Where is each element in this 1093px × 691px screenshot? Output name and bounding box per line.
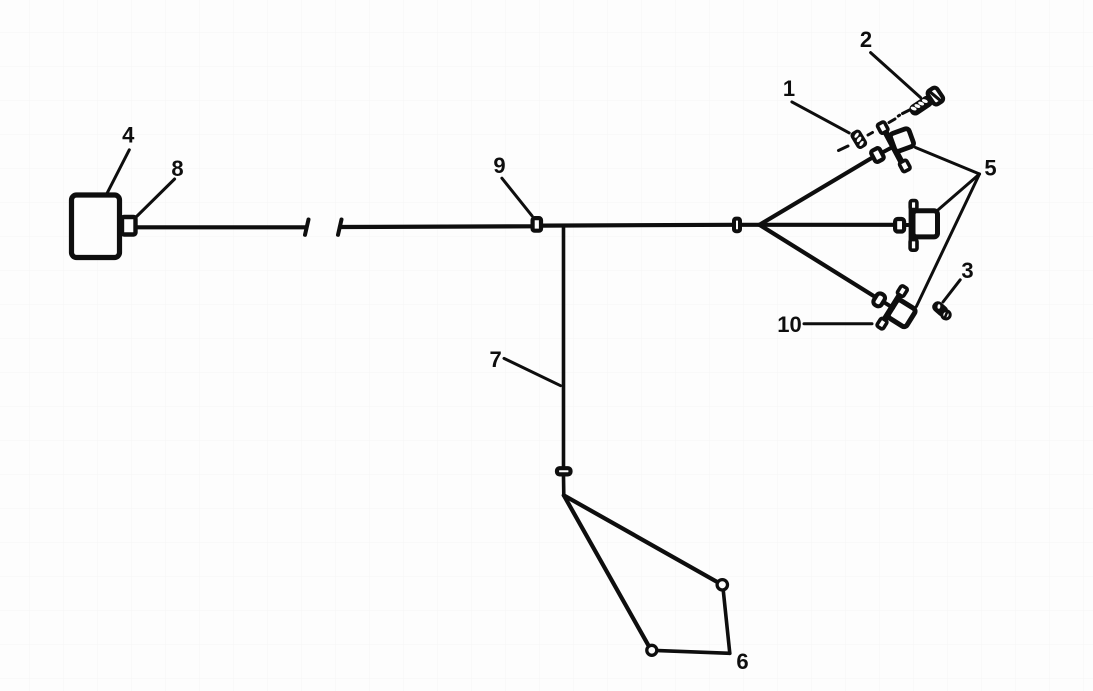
leader for label 8 (137, 179, 175, 217)
wire: branch to bottom connector nut (760, 225, 875, 297)
coupling nut (870, 147, 884, 162)
screw 2 (906, 86, 944, 119)
leader for label 10 (804, 322, 872, 325)
bottom mounting tab (910, 240, 917, 251)
eyelet terminal A (item 6) (717, 580, 727, 590)
junction sleeve on wire (734, 219, 740, 232)
top mounting tab (910, 201, 917, 210)
top mounting tab (897, 285, 908, 297)
svg-text:3: 3 (961, 258, 973, 283)
svg-text:1: 1 (783, 76, 795, 101)
coupling nut (895, 219, 904, 232)
coupling nut (872, 292, 887, 308)
leader for label 3 (943, 280, 960, 302)
nut stub (882, 146, 894, 153)
leaders for label 5 (916, 148, 980, 175)
svg-text:7: 7 (489, 347, 501, 372)
box 4: control module (72, 195, 120, 258)
svg-text:8: 8 (171, 156, 183, 181)
leader for label 4 (107, 150, 129, 193)
screw head (926, 86, 944, 105)
screw 3 (931, 300, 953, 321)
wire break tick left (305, 220, 309, 235)
leader for label 9 (502, 178, 532, 216)
wire: eyelet A down to corner (723, 591, 730, 654)
wire: loop left side to eyelet B (564, 495, 649, 645)
wire: branch to top connector nut (760, 156, 876, 225)
svg-text:10: 10 (777, 312, 801, 337)
wire: harness lead from box 4 to break (137, 225, 306, 229)
leader for label 7 (504, 358, 561, 385)
svg-text:5: 5 (984, 155, 996, 180)
wire: branch to middle connector nut (760, 223, 894, 227)
wire: bottom run corner to eyelet B (658, 651, 730, 654)
svg-text:6: 6 (736, 649, 748, 674)
bottom mounting tab (876, 318, 887, 330)
item 1: knurled coupling nut (851, 130, 867, 149)
wire: main harness run to connector 9 (340, 224, 532, 229)
connector sleeve 9 on wire (533, 218, 541, 231)
sleeve on vertical drop lead (557, 468, 571, 474)
middle connector (item 5 group) (895, 201, 937, 251)
flange bar (883, 293, 901, 322)
wire: stub from junction sleeve to branch vertex (742, 223, 760, 227)
wire break tick right (338, 220, 342, 235)
wire: harness run from connector 9 to junction sleeve (543, 223, 732, 228)
leader for label 2 (871, 53, 921, 98)
bottom mounting tab (899, 160, 911, 173)
wire: loop upper side to eyelet A (564, 495, 717, 582)
wire: vertical drop lead (item 7) (562, 227, 566, 466)
plug 8 on box (122, 217, 136, 235)
flange bar (909, 205, 915, 245)
svg-text:2: 2 (860, 27, 872, 52)
wire: drop lead below sleeve to loop vertex (562, 477, 566, 496)
top connector (item 5 group) (861, 121, 915, 182)
flange bar (884, 128, 902, 162)
dash-dot centerline through top connector (839, 110, 910, 151)
bottom connector 10 (863, 277, 924, 340)
connector body (889, 128, 914, 152)
nut stub (883, 302, 893, 308)
svg-text:4: 4 (122, 122, 135, 147)
nut stub (903, 223, 912, 227)
svg-text:9: 9 (493, 153, 505, 178)
connector body (887, 299, 916, 328)
eyelet terminal B (item 6) (647, 645, 657, 655)
top mounting tab (877, 121, 889, 134)
callout labels (122, 27, 996, 674)
leader for label 1 (792, 102, 849, 133)
connector body (913, 211, 938, 237)
